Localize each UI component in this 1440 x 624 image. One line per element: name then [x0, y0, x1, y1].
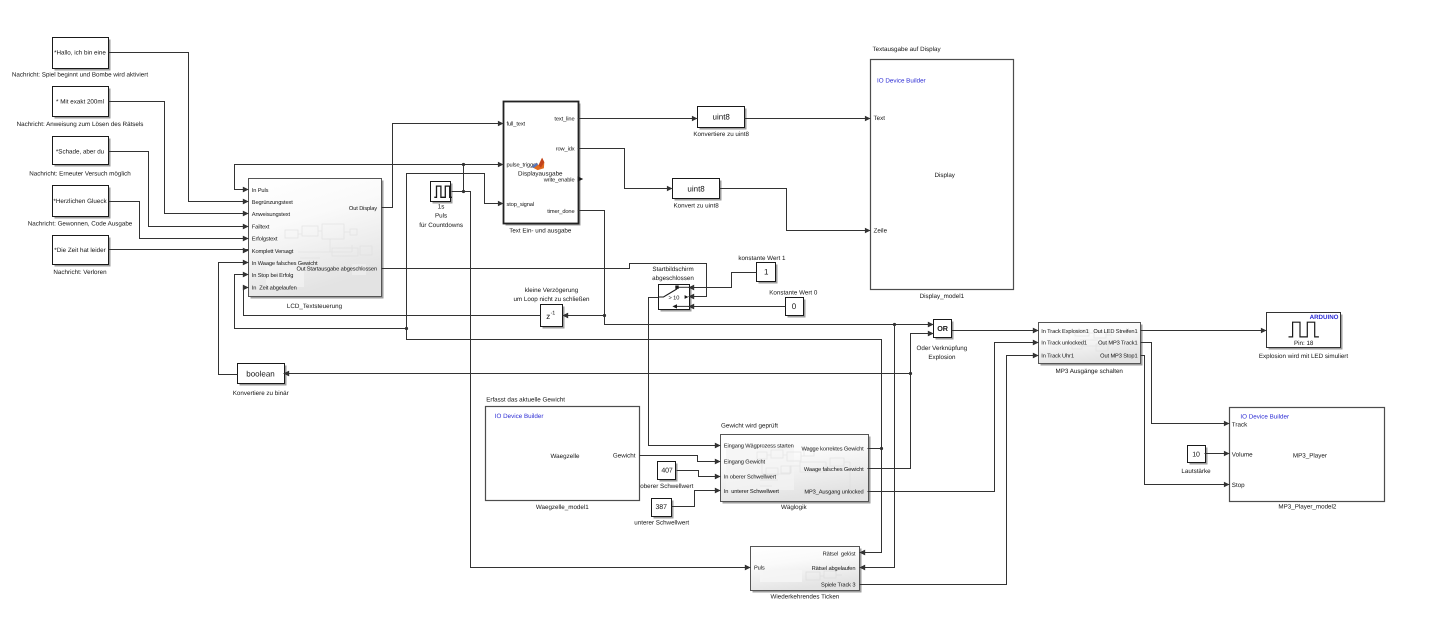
svg-text:LCD_Textsteuerung: LCD_Textsteuerung	[287, 303, 343, 310]
label MP3 Ausgaenge schalten	[1055, 368, 1123, 375]
svg-text:MP3_Player_model2: MP3_Player_model2	[1278, 503, 1337, 510]
svg-text:1: 1	[764, 268, 769, 277]
svg-text:boolean: boolean	[246, 370, 274, 379]
svg-text:Gewicht wird geprüft: Gewicht wird geprüft	[721, 423, 778, 430]
svg-text:Volume: Volume	[1232, 451, 1253, 458]
annotation Startbildschirm abgeschlossen	[652, 266, 694, 282]
annotation oberer Schwellwert	[640, 483, 693, 490]
constant 387 "unterer Schwellwert"	[652, 499, 674, 519]
source block S5 "*Die Zeit hat leider"	[53, 236, 111, 267]
svg-text:OR: OR	[937, 324, 948, 333]
svg-text:In Puls: In Puls	[252, 187, 269, 194]
svg-text:Explosion wird mit LED simulie: Explosion wird mit LED simuliert	[1259, 353, 1349, 360]
svg-text:Displayausgabe: Displayausgabe	[518, 170, 563, 177]
wire timer_done -> z-1 input	[563, 211, 607, 319]
svg-text:Display: Display	[934, 172, 955, 179]
annotation under S5	[53, 269, 107, 276]
wire S1 -> Begruenzungstext	[109, 53, 249, 205]
svg-text:Text: Text	[874, 115, 886, 122]
label Waeglogik	[781, 504, 808, 511]
svg-text:Stop: Stop	[1232, 482, 1245, 489]
svg-text:konstante Wert 1: konstante Wert 1	[738, 255, 786, 262]
wire Out MP3 Track1 -> Track	[1141, 343, 1230, 427]
svg-text:ARDUINO: ARDUINO	[1310, 314, 1339, 321]
wire boolean out -> In Waage falsches Gewicht	[219, 260, 249, 375]
svg-text:*Die Zeit hat leider: *Die Zeit hat leider	[54, 247, 105, 254]
svg-text:Wiederkehrendes Ticken: Wiederkehrendes Ticken	[771, 594, 840, 601]
svg-text:timer_done: timer_done	[547, 208, 574, 215]
subsystem Waeglogik	[715, 435, 871, 504]
source block S2 "* Mit exakt 200ml"	[53, 87, 111, 119]
svg-text:Waegzelle: Waegzelle	[551, 453, 580, 460]
svg-text:write_enable: write_enable	[543, 177, 575, 184]
svg-text:Wagge korrektes Gewicht: Wagge korrektes Gewicht	[801, 446, 864, 453]
annotation Konstante Wert 0	[769, 290, 818, 297]
svg-text:z: z	[546, 312, 550, 321]
svg-text:Nachricht: Spiel beginnt und B: Nachricht: Spiel beginnt und Bombe wird …	[12, 71, 148, 78]
svg-text:Startbildschirm: Startbildschirm	[652, 266, 693, 273]
subsystem MP3 Ausgaenge schalten	[1033, 323, 1143, 366]
annotation under S3	[29, 171, 131, 178]
svg-text:Pin: 18: Pin: 18	[1294, 340, 1314, 347]
wire falsches Gewicht -> OR in2	[868, 331, 934, 469]
svg-text:Eingang Wägprozess starten: Eingang Wägprozess starten	[724, 443, 794, 450]
wire uint8 #2 -> Zeile	[720, 189, 871, 234]
wire Spiele Track 3 -> In Track Uhr1	[860, 353, 1039, 585]
svg-text:Out Display: Out Display	[349, 205, 377, 212]
annotation Lautstaerke	[1181, 468, 1211, 475]
svg-text:1s: 1s	[438, 203, 445, 210]
annotation Erfasst das aktuelle Gewicht	[486, 397, 565, 404]
label MP3_Player_model2	[1278, 503, 1337, 510]
svg-text:IO Device Builder: IO Device Builder	[495, 413, 544, 420]
label Explosion wird mit LED simuliert	[1259, 353, 1349, 360]
wire const 0 -> switch in3	[689, 304, 786, 309]
IO block MP3_Player_model2	[1230, 408, 1385, 502]
svg-text:für Countdowns: für Countdowns	[419, 222, 463, 229]
source block S1 "*Hallo, ich bin eine"	[53, 38, 111, 71]
svg-text:Display_model1: Display_model1	[920, 293, 965, 300]
svg-text:IO Device Builder: IO Device Builder	[1240, 414, 1289, 421]
wire Out LED Streifen1 -> Pin 18	[1141, 328, 1267, 333]
svg-text:Waage falsches Gewicht: Waage falsches Gewicht	[804, 466, 864, 473]
svg-text:full_text: full_text	[507, 121, 526, 128]
annotation kleine Verzoegerung	[513, 287, 590, 303]
pulse generator "1s Puls"	[431, 182, 453, 204]
arduino digital output Pin 18	[1267, 313, 1343, 350]
svg-text:Nachricht: Gewonnen, Code Ausg: Nachricht: Gewonnen, Code Ausgabe	[28, 221, 133, 228]
svg-text:-1: -1	[551, 310, 556, 316]
wire uint8 #1 -> Text	[745, 116, 871, 121]
wire Out Startausgabe -> switch in2	[382, 264, 707, 300]
switch "Startbildschirm abgeschlossen" (mirrored)	[658, 285, 694, 312]
svg-text:Explosion: Explosion	[928, 354, 956, 361]
wire Out Display -> full_text	[382, 121, 504, 208]
wire 387 -> In unterer Schwellwert	[672, 488, 721, 507]
svg-text:Komplett Versagt: Komplett Versagt	[252, 248, 294, 255]
svg-text:* Mit exakt 200ml: * Mit exakt 200ml	[56, 98, 104, 105]
wire S3 -> Failtext	[109, 152, 249, 230]
wire korrektes Gewicht branch -> In Stop bei Erfolg	[235, 272, 407, 329]
label Display_model1	[920, 293, 965, 300]
subsystem LCD_Textsteuerung	[243, 179, 384, 299]
svg-text:uint8: uint8	[687, 184, 705, 193]
wire S4 -> Erfolgstext	[109, 202, 249, 242]
constant 10 "Lautstaerke"	[1188, 446, 1208, 465]
constant 0 "Konstante Wert 0"	[786, 298, 806, 318]
svg-text:Nachricht: Erneuter Versuch mö: Nachricht: Erneuter Versuch möglich	[29, 171, 131, 178]
svg-text:kleine Verzögerung: kleine Verzögerung	[525, 287, 579, 294]
wire z-1 out -> In Zeit abgelaufen	[243, 285, 541, 316]
wire Gewicht -> Eingang Gewicht	[640, 456, 721, 465]
wire pulse net to In Puls and pulse_trigger	[235, 162, 504, 193]
label 1s Puls fuer Countdowns	[419, 203, 463, 229]
label LCD_Textsteuerung	[287, 303, 343, 310]
svg-text:Track: Track	[1232, 421, 1248, 428]
svg-text:Failtext: Failtext	[252, 223, 270, 230]
svg-text:Oder Verknüpfung: Oder Verknüpfung	[917, 345, 968, 352]
wire Out MP3 Stop1 -> Stop	[1141, 356, 1230, 488]
svg-text:In Zeit abgelaufen: In Zeit abgelaufen	[252, 285, 297, 292]
wire S2 -> Anweisungstext	[109, 102, 249, 217]
label Konvert zu uint8	[674, 203, 720, 210]
constant 407 "oberer Schwellwert"	[658, 462, 678, 482]
annotation konstante Wert 1	[738, 255, 786, 262]
svg-text:Textausgabe auf Display: Textausgabe auf Display	[873, 46, 942, 53]
wire text_line -> uint8 #1	[578, 116, 698, 121]
svg-text:unterer Schwellwert: unterer Schwellwert	[634, 519, 689, 526]
annotation Oder Verknuepfung Explosion	[917, 345, 968, 361]
svg-text:Out MP3 Stop1: Out MP3 Stop1	[1100, 354, 1137, 360]
svg-text:Nachricht: Verloren: Nachricht: Verloren	[53, 269, 107, 276]
svg-text:Waegzelle_model1: Waegzelle_model1	[536, 504, 589, 511]
svg-text:Out LED Streifen1: Out LED Streifen1	[1093, 328, 1137, 335]
svg-text:MP3_Player: MP3_Player	[1293, 452, 1327, 459]
wire pulse net down to Ticken Puls	[464, 192, 751, 571]
wire OR out -> In Track Explosion1	[952, 328, 1039, 333]
svg-text:Gewicht: Gewicht	[613, 452, 636, 459]
svg-text:Eingang Gewicht: Eingang Gewicht	[724, 459, 766, 466]
svg-text:Erfolgstext: Erfolgstext	[252, 236, 278, 243]
svg-text:0: 0	[792, 302, 797, 311]
svg-text:In Track unlocked1: In Track unlocked1	[1041, 340, 1087, 347]
svg-text:stop_signal: stop_signal	[507, 201, 534, 208]
source block S3 "*Schade, aber du"	[53, 137, 111, 167]
svg-text:Puls: Puls	[435, 213, 447, 220]
svg-text:Out Startausgabe abgeschlossen: Out Startausgabe abgeschlossen	[296, 265, 377, 272]
constant 1 "konstante Wert 1"	[757, 263, 778, 284]
svg-text:Rätsel gelöst: Rätsel gelöst	[823, 550, 856, 557]
svg-text:Konvertiere zu binär: Konvertiere zu binär	[233, 390, 289, 397]
annotation Textausgabe auf Display	[873, 46, 942, 53]
svg-text:Erfasst das aktuelle Gewicht: Erfasst das aktuelle Gewicht	[486, 397, 565, 404]
svg-text:> 10: > 10	[669, 296, 680, 302]
data type conversion "Konvertiere zu uint8"	[698, 107, 747, 130]
svg-text:row_idx: row_idx	[556, 145, 575, 152]
svg-text:uint8: uint8	[713, 113, 731, 122]
svg-text:In Track Uhr1: In Track Uhr1	[1041, 353, 1074, 360]
svg-text:In oberer Schwellwert: In oberer Schwellwert	[724, 473, 777, 480]
svg-text:*Schade, aber du: *Schade, aber du	[56, 148, 105, 155]
label Konvertiere zu binaer	[233, 390, 289, 397]
svg-text:um Loop nicht zu schließen: um Loop nicht zu schließen	[513, 296, 590, 303]
svg-text:Konvert zu uint8: Konvert zu uint8	[674, 203, 720, 210]
svg-text:In Stop bei Erfolg: In Stop bei Erfolg	[252, 272, 293, 279]
svg-text:Begrünzungstext: Begrünzungstext	[252, 200, 293, 206]
wire timer_done -> OR in1	[605, 316, 934, 328]
svg-text:oberer Schwellwert: oberer Schwellwert	[640, 483, 693, 490]
svg-text:text_line: text_line	[554, 115, 574, 122]
wire const 10 -> Volume	[1205, 451, 1230, 456]
svg-text:Wäglogik: Wäglogik	[781, 504, 808, 511]
svg-text:Spiele Track 3: Spiele Track 3	[821, 582, 855, 589]
wire const 1 -> switch in1	[689, 273, 757, 291]
wire falsches Gewicht branch -> boolean in	[284, 371, 911, 376]
svg-text:*Herzlichen Glueck: *Herzlichen Glueck	[53, 198, 107, 205]
wire switch out -> Eingang Waegprozess starten	[649, 298, 721, 449]
svg-text:Nachricht: Anweisung zum Lösen: Nachricht: Anweisung zum Lösen des Rätse…	[17, 121, 144, 128]
svg-text:Lautstärke: Lautstärke	[1181, 468, 1211, 475]
wire timer_done branch -> Raetsel abgelaufen	[860, 325, 895, 571]
IO block Display_model1	[871, 60, 1014, 290]
svg-text:Text Ein- und ausgabe: Text Ein- und ausgabe	[509, 228, 572, 235]
IO block Waegzelle_model1	[486, 407, 640, 501]
svg-text:Out MP3 Track1: Out MP3 Track1	[1098, 340, 1137, 347]
source block S4 "*Herzlichen Glueck"	[53, 186, 111, 219]
wire korrektes Gewicht branch -> Raetsel geloest	[860, 449, 882, 556]
svg-text:MP3 Ausgänge schalten: MP3 Ausgänge schalten	[1055, 368, 1123, 375]
svg-text:In unterer Schwellwert: In unterer Schwellwert	[724, 488, 780, 495]
svg-text:IO Device Builder: IO Device Builder	[877, 78, 926, 85]
label Wiederkehrendes Ticken	[771, 594, 840, 601]
svg-text:Rätsel abgelaufen: Rätsel abgelaufen	[812, 565, 856, 572]
annotation unterer Schwellwert	[634, 519, 689, 526]
unit delay z^-1	[541, 305, 569, 329]
wire row_idx -> uint8 #2	[578, 149, 673, 192]
wire MP3_Ausgang unlocked -> In Track unlocked1	[868, 340, 1039, 492]
svg-text:In Track Explosion1: In Track Explosion1	[1041, 328, 1088, 335]
label Konvertiere zu uint8	[693, 131, 749, 138]
svg-text:407: 407	[661, 468, 673, 475]
annotation under S4	[28, 221, 133, 228]
wire korrektes Gewicht net (up to stop_signal)	[405, 174, 883, 451]
svg-text:abgeschlossen: abgeschlossen	[652, 275, 694, 282]
svg-text:10: 10	[1192, 451, 1200, 458]
svg-text:Konvertiere zu uint8: Konvertiere zu uint8	[693, 131, 749, 138]
svg-text:MP3_Ausgang unlocked: MP3_Ausgang unlocked	[804, 488, 863, 495]
svg-text:Konstante Wert 0: Konstante Wert 0	[769, 290, 818, 297]
subsystem Wiederkehrendes Ticken	[745, 547, 865, 593]
svg-text:Anweisungstext: Anweisungstext	[252, 211, 291, 218]
wire S5 -> Komplett Versagt	[109, 248, 249, 253]
svg-text:Zeile: Zeile	[874, 228, 888, 235]
wire 407 -> In oberer Schwellwert	[677, 471, 721, 480]
logical operator OR "Oder Verknuepfung Explosion"	[928, 320, 954, 340]
svg-text:Puls: Puls	[754, 565, 765, 572]
MATLAB function block "Text Ein- und ausgabe"	[504, 102, 584, 226]
svg-text:387: 387	[656, 504, 668, 511]
label Text Ein- und ausgabe	[509, 228, 572, 235]
data type conversion "Konvert zu uint8"	[673, 179, 722, 201]
label Waegzelle_model1	[536, 504, 589, 511]
annotation under S2	[17, 121, 144, 128]
svg-text:*Hallo, ich bin eine: *Hallo, ich bin eine	[54, 50, 106, 57]
data type conversion boolean (mirrored)	[238, 364, 290, 386]
annotation under S1	[12, 71, 148, 78]
annotation Gewicht wird geprueft	[721, 423, 778, 430]
